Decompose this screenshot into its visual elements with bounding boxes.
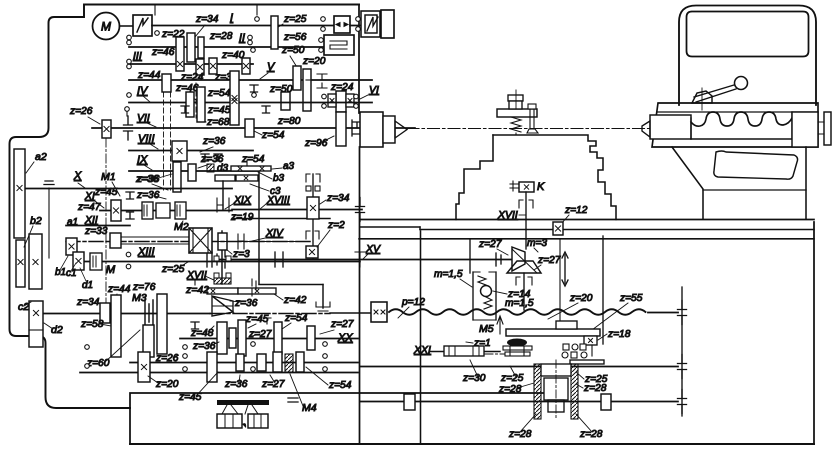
svg-text:z=34: z=34 bbox=[326, 193, 350, 204]
svg-text:z=40: z=40 bbox=[221, 50, 245, 61]
svg-text:z=54: z=54 bbox=[261, 130, 285, 141]
apron upper housing line bbox=[469, 239, 471, 273]
svg-text:z=47: z=47 bbox=[77, 202, 101, 213]
bearing circles XIII bbox=[126, 252, 131, 257]
svg-text:d1: d1 bbox=[82, 280, 93, 291]
workpiece with waves bbox=[691, 138, 792, 140]
svg-text:XVII: XVII bbox=[497, 209, 518, 221]
svg-text:XII: XII bbox=[84, 214, 98, 226]
bottom bed line bbox=[130, 443, 814, 445]
svg-text:IX: IX bbox=[137, 154, 148, 166]
gear z=50 on IV bbox=[281, 92, 290, 110]
svg-text:z=20: z=20 bbox=[302, 56, 326, 67]
apron left frame vertical bbox=[420, 231, 422, 444]
svg-text:z=56: z=56 bbox=[283, 32, 307, 43]
gear z=60 bbox=[143, 325, 154, 357]
svg-text:z=76: z=76 bbox=[132, 282, 156, 293]
bevel pair z=36 z=48 bbox=[212, 296, 233, 312]
svg-text:z=96: z=96 bbox=[304, 138, 328, 149]
svg-text:z=50: z=50 bbox=[269, 84, 293, 95]
gear b2 bbox=[16, 240, 25, 287]
spindle centerline to tailstock bbox=[407, 128, 650, 130]
tailstock center cone bbox=[642, 121, 650, 137]
svg-text:z=36: z=36 bbox=[224, 379, 248, 390]
spindle shaft VII centerline bbox=[92, 127, 415, 129]
svg-text:m=1,5: m=1,5 bbox=[505, 298, 534, 309]
svg-text:z=27: z=27 bbox=[478, 239, 502, 250]
apron worm bracket bbox=[473, 272, 496, 320]
svg-text:a2: a2 bbox=[35, 151, 47, 163]
switch rod dogs bbox=[404, 394, 415, 410]
gear on XI bbox=[111, 200, 121, 221]
svg-text:z=45: z=45 bbox=[207, 105, 231, 116]
coupling symbol XV mid bbox=[355, 252, 365, 267]
gear z=20 xbox bbox=[138, 352, 150, 382]
bearing hangers shaft I bbox=[154, 5, 156, 15]
brake box shaft II bbox=[324, 35, 354, 55]
svg-text:z=45: z=45 bbox=[245, 314, 269, 325]
leadscrew bearing at hanger bbox=[678, 301, 687, 325]
svg-text:M2: M2 bbox=[174, 221, 189, 233]
svg-text:VII: VII bbox=[137, 112, 150, 124]
bearing circles clutch bbox=[321, 17, 326, 22]
svg-text:z=60: z=60 bbox=[86, 358, 110, 369]
svg-text:z=36: z=36 bbox=[202, 136, 226, 147]
apron gear z=30 z=25 shaft bbox=[430, 351, 500, 353]
svg-text:b2: b2 bbox=[30, 215, 42, 227]
svg-text:z=42: z=42 bbox=[185, 284, 209, 296]
gear z=33 on XIII bbox=[110, 233, 121, 248]
svg-text:z=33: z=33 bbox=[84, 226, 108, 237]
gear z=44 z=58 cluster bbox=[111, 295, 121, 357]
svg-text:XIX: XIX bbox=[233, 194, 252, 206]
gear box z=36 on VIII bbox=[172, 141, 187, 161]
worm spring bottom bbox=[484, 297, 492, 309]
worm wheel z=14 bbox=[481, 286, 492, 297]
shaft XIII dash bbox=[66, 241, 310, 243]
bearing T XI left bbox=[126, 192, 134, 199]
hanger T IV bbox=[181, 106, 189, 113]
gear z=26 on spindle bbox=[102, 120, 111, 138]
coupling on XVIII vertical bbox=[252, 279, 256, 296]
shaft XX bbox=[180, 338, 358, 340]
half nut M5 bars bbox=[506, 329, 600, 336]
svg-text:z=45: z=45 bbox=[94, 187, 118, 198]
svg-text:z=54: z=54 bbox=[284, 313, 308, 324]
svg-text:z=19: z=19 bbox=[230, 212, 254, 223]
gear z=54 on spindle bbox=[245, 119, 254, 137]
svg-text:z=54: z=54 bbox=[328, 380, 352, 391]
tool post spring bbox=[511, 117, 521, 132]
svg-text:XI: XI bbox=[84, 190, 95, 202]
shaft IV bbox=[129, 102, 372, 104]
worm z=3 on vertical bbox=[221, 231, 223, 284]
belt pulley drive bottom bbox=[217, 400, 269, 405]
tumbler bar z=42 bbox=[207, 288, 238, 294]
svg-text:z=44: z=44 bbox=[107, 284, 131, 295]
svg-text:z=36: z=36 bbox=[136, 174, 160, 185]
svg-text:z=18: z=18 bbox=[607, 329, 631, 340]
big sliding gear IV bbox=[230, 71, 239, 125]
spindle left bearing bbox=[124, 116, 133, 140]
gear z=76 bbox=[157, 294, 167, 354]
svg-text:z=80: z=80 bbox=[277, 116, 301, 127]
svg-text:m=3: m=3 bbox=[527, 238, 547, 249]
svg-text:IV: IV bbox=[137, 85, 149, 97]
arrow M5 bbox=[497, 316, 503, 334]
svg-text:I: I bbox=[230, 12, 233, 24]
shaft XVIII vertical bbox=[258, 172, 260, 284]
bearing hanger row B bbox=[191, 322, 199, 329]
shaft XIV feed input bbox=[44, 313, 210, 315]
svg-text:m=1,5: m=1,5 bbox=[434, 269, 463, 280]
gear z=24 on VI bbox=[336, 91, 346, 112]
svg-text:XV: XV bbox=[365, 243, 381, 255]
svg-text:a3: a3 bbox=[283, 161, 295, 172]
bearing marks shaft X bbox=[44, 181, 54, 185]
tailstock clamp right bbox=[792, 112, 818, 147]
svg-text:z=26: z=26 bbox=[155, 353, 179, 364]
gear block z=50 z=20 on V bbox=[293, 66, 301, 90]
svg-text:z=1: z=1 bbox=[473, 338, 491, 349]
svg-text:z=34: z=34 bbox=[76, 297, 100, 308]
gears row C bbox=[207, 352, 217, 382]
vertical gear hanger x=603 bbox=[602, 236, 604, 344]
svg-text:z=20: z=20 bbox=[155, 379, 179, 390]
svg-text:z=36: z=36 bbox=[136, 190, 160, 201]
svg-text:z=36: z=36 bbox=[234, 298, 258, 309]
big X gear box on XIII bbox=[189, 228, 212, 253]
tailstock foot bbox=[672, 147, 703, 219]
leadscrew wavy line bbox=[389, 309, 646, 315]
tailstock quill bbox=[650, 115, 691, 139]
rack base plate bbox=[570, 360, 604, 364]
handwheel apron bbox=[507, 339, 527, 347]
gear z=34 on hanger bbox=[307, 197, 319, 219]
gear z=25 z=56 block bbox=[271, 16, 278, 49]
tool post cap bbox=[497, 109, 537, 117]
tailstock lever base bbox=[692, 91, 712, 103]
tailstock base window bbox=[714, 151, 798, 179]
svg-text:z=3: z=3 bbox=[232, 249, 250, 260]
svg-text:M1: M1 bbox=[101, 171, 116, 183]
svg-text:z=58: z=58 bbox=[80, 319, 104, 330]
switch rod bearing bbox=[678, 390, 687, 414]
hanger dashdot from z=26 gear bbox=[105, 138, 107, 303]
svg-text:M3: M3 bbox=[132, 292, 147, 304]
worm spring top bbox=[478, 276, 486, 285]
hanger IX bbox=[201, 154, 209, 161]
svg-text:z=55: z=55 bbox=[619, 293, 643, 304]
svg-text:z=26: z=26 bbox=[69, 106, 93, 117]
svg-text:M: M bbox=[106, 264, 116, 276]
bearing hanger shaft V end bbox=[317, 74, 327, 88]
gears a1 b1 on left bbox=[66, 238, 77, 255]
motor M bbox=[93, 13, 120, 40]
bracket above z=2 bbox=[306, 231, 319, 239]
shaft IX bbox=[129, 170, 258, 172]
clutch M3 bbox=[145, 300, 153, 326]
tailstock handwheel bbox=[824, 112, 831, 145]
gear cluster shafts I-III bbox=[176, 37, 184, 71]
shaft XI bbox=[100, 210, 232, 212]
shaft row C bbox=[130, 362, 358, 364]
wire motor to drive bbox=[120, 25, 134, 27]
bed ways lines bbox=[360, 219, 814, 221]
svg-text:z=24: z=24 bbox=[180, 72, 204, 83]
belt drive box bbox=[133, 15, 152, 36]
svg-text:z=54: z=54 bbox=[241, 154, 265, 165]
shaft X bbox=[21, 188, 232, 190]
shaft XIII lower line bbox=[85, 261, 360, 263]
horizontal line upper tumbler bbox=[232, 209, 362, 211]
svg-text:z=20: z=20 bbox=[569, 293, 593, 304]
clutch M4 hatched bbox=[285, 354, 293, 372]
worm z=2 bbox=[306, 246, 318, 258]
svg-text:p=12: p=12 bbox=[401, 297, 425, 308]
svg-text:z=42: z=42 bbox=[283, 295, 307, 306]
svg-text:X: X bbox=[73, 170, 82, 182]
svg-text:XIII: XIII bbox=[137, 246, 155, 258]
vertical bevel shaft down bbox=[523, 273, 525, 310]
spindle bearing front bbox=[352, 120, 362, 136]
svg-text:M4: M4 bbox=[302, 402, 317, 414]
svg-text:z=54: z=54 bbox=[207, 88, 231, 99]
z=18 pinion box bbox=[584, 336, 597, 345]
bearing block shaft VI bbox=[328, 94, 336, 107]
svg-text:d2: d2 bbox=[51, 324, 63, 336]
svg-text:XIV: XIV bbox=[265, 227, 284, 239]
gear c2 d2 block bbox=[29, 301, 43, 347]
svg-text:z=50: z=50 bbox=[281, 45, 305, 56]
bearing circles feedbox bbox=[183, 345, 188, 350]
bed right vertical bbox=[813, 222, 815, 444]
tool post stud bbox=[528, 104, 536, 109]
hatched coupling XVII bbox=[214, 278, 231, 284]
line to leadscrew right bbox=[259, 284, 323, 286]
svg-text:z=27: z=27 bbox=[330, 319, 354, 330]
big gear z=96 bbox=[336, 112, 346, 146]
feed rod XVI bbox=[360, 366, 678, 368]
bevel gear pair z=27 m=3 bbox=[512, 247, 525, 271]
bearing at frame x360 line XVIII bbox=[356, 198, 365, 222]
shaft XIV line bbox=[213, 241, 310, 243]
double arrow bbox=[562, 252, 568, 286]
svg-text:z=25: z=25 bbox=[500, 373, 524, 384]
tool slide nut K bbox=[519, 182, 534, 192]
hatched coupling d3 on shaft IX bbox=[207, 164, 214, 172]
bearings near XIV bbox=[238, 234, 244, 249]
feed gearbox frame bbox=[130, 393, 546, 444]
gear cluster shaft IV bbox=[186, 92, 194, 117]
vertical hanger x=313 bbox=[312, 174, 314, 259]
tailstock quill housing band bbox=[652, 103, 818, 147]
svg-text:z=30: z=30 bbox=[462, 373, 486, 384]
shaft row D bbox=[80, 372, 358, 374]
svg-text:XVIII: XVIII bbox=[266, 194, 290, 206]
svg-text:K: K bbox=[537, 181, 545, 193]
rack rollers bbox=[563, 344, 569, 350]
leadscrew nut pair bbox=[503, 346, 532, 350]
tailstock body upper bbox=[679, 6, 816, 106]
tool post bolt bbox=[508, 95, 523, 101]
equals mark M4 bbox=[288, 398, 298, 402]
svg-text:XXI: XXI bbox=[413, 344, 431, 356]
svg-text:z=46: z=46 bbox=[151, 47, 175, 58]
clutch M on XIII bbox=[90, 253, 102, 270]
tailstock lever ball bbox=[735, 77, 748, 90]
svg-text:c2: c2 bbox=[18, 301, 29, 313]
screw XVII vertical in carriage bbox=[525, 192, 527, 249]
clutch P boxes on XI bbox=[142, 202, 153, 219]
gear z=34 row A bbox=[100, 303, 110, 323]
svg-text:XX: XX bbox=[337, 332, 353, 344]
apron gear cluster z=1 bbox=[444, 346, 484, 356]
gears row B bbox=[217, 322, 227, 354]
headstock right frame vertical bbox=[358, 5, 360, 114]
hanger bars bbox=[246, 160, 248, 166]
dead center cone bbox=[395, 121, 407, 138]
svg-text:z=28: z=28 bbox=[583, 383, 607, 394]
svg-text:z=68: z=68 bbox=[206, 117, 230, 128]
cluster centerline bbox=[555, 360, 557, 420]
splined shaft XIII body bbox=[121, 236, 189, 238]
gear cluster apron lower bbox=[534, 364, 541, 419]
svg-text:z=28: z=28 bbox=[209, 31, 233, 42]
svg-text:b3: b3 bbox=[273, 173, 285, 184]
svg-text:z=28: z=28 bbox=[498, 384, 522, 395]
svg-text:z=28: z=28 bbox=[508, 429, 532, 440]
svg-text:z=12: z=12 bbox=[564, 205, 588, 216]
leadscrew coupling box bbox=[371, 302, 387, 322]
norton output bars a3 b3 c3 d3 bbox=[231, 166, 271, 171]
machine outline headstock contour bbox=[10, 5, 360, 409]
switch rod XXI bbox=[360, 401, 678, 403]
shaft II bbox=[129, 46, 324, 48]
shaft V bbox=[129, 79, 372, 81]
svg-text:d3: d3 bbox=[217, 163, 229, 174]
carriage stepped outline bbox=[493, 135, 616, 220]
svg-text:c1: c1 bbox=[66, 268, 77, 279]
tailstock window bbox=[687, 12, 809, 57]
shaft XV bbox=[217, 259, 511, 261]
svg-text:z=36: z=36 bbox=[192, 341, 216, 352]
gear z=44 on V bbox=[162, 74, 171, 92]
svg-text:M: M bbox=[101, 20, 111, 34]
belt symbol box right bbox=[361, 11, 380, 37]
shaft XIX vertical bbox=[222, 181, 224, 210]
gear a2 column bbox=[14, 149, 25, 238]
clutch on XV left bbox=[207, 252, 217, 267]
gear c2 upper bbox=[29, 234, 42, 289]
tailstock lever handle bbox=[694, 85, 736, 102]
shaft III bbox=[129, 63, 253, 65]
svg-text:z=44: z=44 bbox=[137, 70, 161, 81]
end pulley rect bbox=[381, 10, 394, 38]
svg-text:z=34: z=34 bbox=[195, 14, 219, 25]
chuck bbox=[360, 112, 383, 147]
gears on IX bbox=[173, 162, 181, 192]
shaft XII bbox=[66, 225, 130, 227]
shaft VIII bbox=[129, 150, 253, 152]
svg-text:z=25: z=25 bbox=[283, 14, 307, 25]
svg-text:z=27: z=27 bbox=[537, 255, 561, 266]
shifter fork XV bbox=[275, 252, 283, 267]
feed rod bearing bbox=[678, 355, 687, 379]
svg-text:z=27: z=27 bbox=[261, 379, 285, 390]
svg-text:a1: a1 bbox=[67, 217, 78, 228]
dashed shifter rails bbox=[163, 92, 165, 190]
rack pinion z=12 bbox=[553, 222, 563, 235]
svg-text:II: II bbox=[239, 32, 245, 44]
shaft I bbox=[152, 25, 333, 27]
bearing circles shaft II bbox=[127, 35, 132, 40]
bearing circles shaft III bbox=[127, 59, 132, 64]
svg-text:M5: M5 bbox=[479, 323, 494, 335]
clutch box shaft I right bbox=[334, 16, 350, 33]
svg-text:VIII: VIII bbox=[138, 133, 155, 145]
svg-text:z=2: z=2 bbox=[327, 220, 345, 231]
svg-text:VI: VI bbox=[369, 84, 379, 96]
svg-text:III: III bbox=[133, 50, 142, 62]
